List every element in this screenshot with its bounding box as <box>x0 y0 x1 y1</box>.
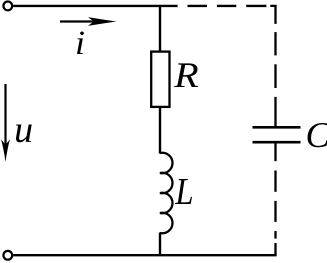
arrow i (current direction) <box>60 20 106 22</box>
label R <box>174 63 198 87</box>
wire (dashed, right vertical segment 6, to bottom corner) <box>274 231 276 239</box>
wire (dashed, right vertical segment 5) <box>274 201 276 222</box>
resistor R <box>151 52 169 107</box>
arrow u (voltage direction, downward) <box>4 84 6 150</box>
wire (dashed, top right horizontal segment 3) <box>246 5 266 7</box>
wire (dashed corner piece, bottom right) <box>274 243 276 255</box>
inductor L <box>160 153 172 234</box>
wire (dashed, right vertical segment 1) <box>274 32 276 55</box>
wire (top horizontal, terminal to junction, solid) <box>13 5 177 7</box>
wire (dashed, right vertical segment 4) <box>274 171 276 192</box>
label C <box>308 123 327 147</box>
wire (inductor bottom to bottom wire) <box>159 233 161 256</box>
label i <box>77 31 84 54</box>
wire (dashed, right vertical segment 3, reaches capacitor) <box>274 97 276 126</box>
capacitor C top plate <box>253 126 301 129</box>
terminal (top-left input) <box>3 2 12 11</box>
wire (center branch, top wire down to resistor) <box>159 6 161 52</box>
label u <box>16 124 32 142</box>
wire (dashed, top right horizontal segment 2) <box>217 5 236 7</box>
label L <box>175 179 192 204</box>
wire (capacitor bottom stub, solid) <box>274 144 276 162</box>
terminal (bottom-left input) <box>3 251 12 260</box>
wire (bottom horizontal, solid full width) <box>13 254 276 256</box>
wire (dashed, top right horizontal segment 1) <box>188 5 208 7</box>
wire (dashed corner, top right) <box>270 6 275 24</box>
wire (resistor bottom to inductor top) <box>159 107 161 154</box>
capacitor C bottom plate <box>253 141 301 144</box>
wire (dashed, right vertical segment 2) <box>274 64 276 88</box>
